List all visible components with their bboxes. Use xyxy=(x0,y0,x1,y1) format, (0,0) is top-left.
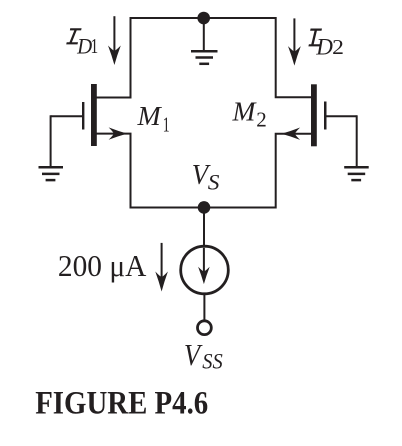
svg-text:1: 1 xyxy=(163,112,170,136)
svg-text:M: M xyxy=(136,101,162,131)
svg-text:2: 2 xyxy=(332,35,344,59)
svg-text:1: 1 xyxy=(91,34,99,58)
svg-text:D: D xyxy=(315,35,333,60)
svg-text:200 μA: 200 μA xyxy=(58,248,147,283)
svg-text:2: 2 xyxy=(256,107,267,131)
svg-text:M: M xyxy=(232,95,258,126)
svg-text:FIGURE P4.6: FIGURE P4.6 xyxy=(35,385,208,421)
svg-text:SS: SS xyxy=(202,349,223,374)
svg-text:S: S xyxy=(208,170,220,195)
svg-text:V: V xyxy=(184,337,203,372)
